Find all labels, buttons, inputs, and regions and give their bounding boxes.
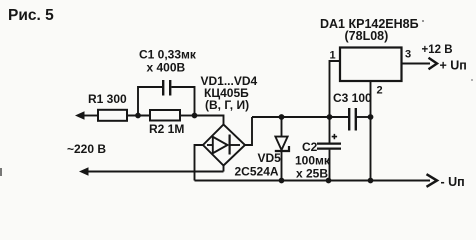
wire bridge left corner to minus rail — [195, 145, 204, 181]
wire node B to bridge top corner — [195, 116, 224, 125]
voltage regulator DA1 box — [340, 48, 402, 82]
resistor R2 — [150, 110, 180, 121]
node C2 / pin1 junction — [327, 114, 333, 120]
wire pin 1 — [330, 61, 341, 117]
svg-text:VD5: VD5 — [258, 151, 282, 165]
svg-text:+12 В: +12 В — [422, 44, 453, 56]
bridge rectifier VD1..VD4 diamond — [203, 125, 245, 166]
wire minus rail with right arrow — [195, 174, 438, 187]
node C2 bottom junction — [326, 178, 332, 184]
bridge inner diode symbol — [207, 135, 240, 155]
node B junction — [192, 113, 198, 119]
svg-text:3: 3 — [405, 49, 411, 61]
svg-text:C3 100: C3 100 — [333, 91, 372, 105]
resistor R1 — [98, 110, 127, 121]
node pin2 bottom junction — [368, 178, 374, 184]
node VD5 top junction — [279, 114, 285, 120]
svg-text:R2 1M: R2 1M — [149, 122, 184, 136]
svg-text:2: 2 — [377, 85, 383, 97]
svg-text:~220 В: ~220 В — [67, 142, 106, 156]
zener diode VD5 — [275, 117, 289, 181]
ink blob scan artifact left edge — [0, 168, 2, 176]
svg-text:100мк: 100мк — [295, 154, 331, 168]
svg-text:С1 0,33мк: С1 0,33мк — [139, 48, 197, 62]
node VD5 bottom junction — [279, 178, 285, 184]
node A junction — [135, 113, 141, 119]
svg-text:1: 1 — [330, 50, 336, 62]
svg-text:(78L08): (78L08) — [345, 29, 389, 43]
capacitor C1 — [138, 80, 195, 116]
capacitor C2 polarized — [317, 117, 341, 181]
wire pin 3 output with right arrow — [402, 58, 438, 69]
svg-text:- Uп: - Uп — [441, 175, 465, 189]
wire plus rail — [252, 116, 348, 118]
svg-text:2С524А: 2С524А — [235, 165, 279, 179]
speck artifact near DA1 label — [422, 20, 424, 22]
wire R2 to node B — [180, 115, 195, 117]
wire pin 2 — [370, 81, 372, 181]
node pin2 rail junction — [368, 114, 374, 120]
wire AC top input with left arrow — [75, 111, 98, 119]
wire R1 to node A — [127, 115, 150, 117]
svg-text:+ Uп: + Uп — [440, 59, 467, 73]
speck artifact right margin — [471, 79, 473, 81]
wire bridge right corner up to plus rail — [245, 117, 252, 145]
svg-text:Рис. 5: Рис. 5 — [8, 7, 54, 24]
svg-text:х 400В: х 400В — [147, 61, 186, 75]
svg-text:х 25В: х 25В — [296, 167, 328, 181]
svg-text:(В, Г, И): (В, Г, И) — [205, 98, 249, 112]
capacitor C3 — [348, 108, 371, 131]
svg-text:C2: C2 — [302, 140, 318, 154]
svg-text:R1 300: R1 300 — [88, 92, 127, 106]
wire AC bottom input with left arrow — [79, 166, 224, 176]
